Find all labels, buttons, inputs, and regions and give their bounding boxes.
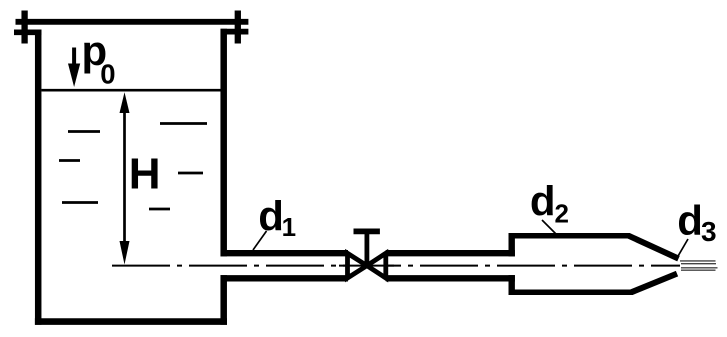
water tick 5 — [178, 172, 203, 175]
water tick 6 — [149, 208, 170, 211]
svg-text:H: H — [129, 150, 161, 199]
leader line d1 — [253, 231, 267, 250]
p0 arrow — [68, 48, 80, 88]
valve stem and handle — [354, 231, 380, 265]
svg-text:d: d — [677, 197, 703, 244]
jet line 1 — [680, 260, 716, 262]
nozzle bottom diagonal — [632, 274, 678, 293]
bolt left — [14, 11, 42, 44]
label d3 — [677, 197, 716, 247]
chamber d2 top wall — [509, 233, 631, 239]
svg-text:2: 2 — [555, 199, 569, 229]
chamber d2 bottom wall — [509, 289, 634, 295]
svg-text:d: d — [530, 178, 556, 225]
tank right wall upper — [220, 29, 227, 257]
jet line 4 — [681, 269, 716, 271]
tank bottom — [35, 318, 227, 325]
water tick 1 — [68, 130, 100, 133]
jet line 3 — [681, 267, 718, 269]
pipe d1 bottom wall — [221, 275, 349, 281]
water tick 3 — [62, 201, 98, 204]
H dimension arrow — [120, 92, 130, 264]
centerline through valve — [339, 265, 394, 267]
nozzle top diagonal — [629, 236, 679, 259]
label p0 — [82, 27, 116, 89]
jet line 2 — [681, 263, 716, 265]
tank right wall lower — [220, 275, 227, 325]
svg-text:0: 0 — [100, 59, 115, 90]
label d2 — [530, 178, 569, 229]
tank left wall — [35, 30, 42, 325]
bolt right — [221, 11, 249, 44]
label d1 — [258, 193, 296, 242]
tank lid — [16, 19, 249, 25]
valve body (bowtie) — [348, 253, 386, 278]
svg-text:d: d — [258, 193, 284, 240]
pipe d1 top wall — [221, 250, 349, 256]
svg-text:3: 3 — [701, 216, 717, 247]
leader line d3 — [678, 239, 689, 257]
expansion step bottom — [509, 275, 515, 295]
pipe d1 after valve bottom wall — [386, 275, 515, 281]
expansion step top — [509, 233, 515, 256]
water tick 2 — [59, 159, 80, 162]
svg-text:1: 1 — [282, 212, 296, 242]
water surface — [42, 89, 221, 92]
water tick 4 — [160, 122, 207, 125]
pipe d1 after valve top wall — [386, 250, 515, 256]
centerline (axis, dash-dot) — [112, 265, 680, 267]
leader line d2 — [542, 220, 556, 234]
